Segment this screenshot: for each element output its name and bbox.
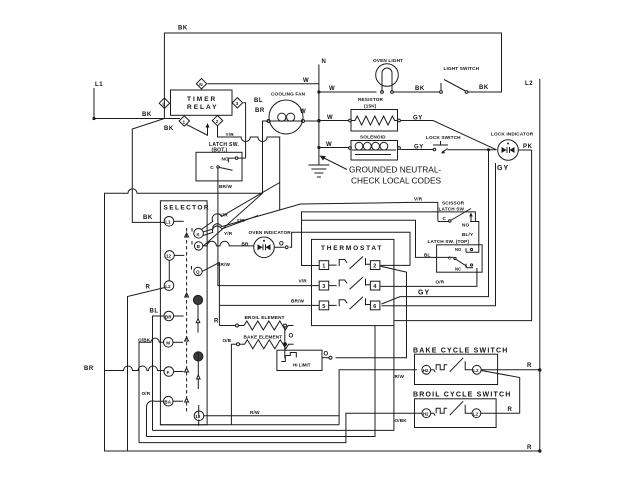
wire elements common to hi limit [284, 327, 286, 350]
svg-text:BR/W: BR/W [219, 184, 233, 189]
wire fan right to neutral [305, 120, 319, 122]
svg-text:F: F [167, 370, 170, 375]
wire bake switch to L2 [481, 369, 540, 371]
wire to thermostat 1 [302, 220, 320, 265]
svg-text:R: R [527, 445, 532, 451]
svg-text:R: R [214, 319, 219, 325]
thermostat contact row 2 [329, 277, 371, 289]
thermostat terminal 6 [370, 301, 380, 310]
svg-text:L: L [162, 101, 165, 106]
svg-text:V/R: V/R [220, 213, 229, 218]
wire neutral to resistor [319, 120, 349, 122]
svg-text:BK: BK [178, 26, 188, 32]
svg-text:LATCH SW. (TOP): LATCH SW. (TOP) [428, 239, 470, 244]
thermostat contact row 3 [329, 297, 371, 309]
wire BK top loop [164, 33, 501, 119]
svg-text:BR: BR [165, 314, 172, 319]
thermostat terminal 3 [319, 281, 329, 290]
svg-text:LOCK INDICATOR: LOCK INDICATOR [491, 132, 534, 137]
wire 12 to L2 [168, 260, 170, 281]
hi limit switch S5 [277, 350, 332, 370]
wire R bottom bus [105, 371, 540, 452]
svg-text:W: W [329, 86, 335, 92]
selector terminal F [164, 367, 184, 377]
wire lock switch to lock indicator [448, 149, 497, 151]
wire diamond 2 to latch bottom NO [218, 126, 280, 210]
selector switch SW2 [160, 201, 210, 425]
svg-text:1: 1 [322, 264, 325, 270]
svg-text:BR: BR [84, 366, 94, 372]
svg-text:BL: BL [424, 253, 431, 258]
svg-text:Y/R: Y/R [226, 132, 235, 137]
wire GY vertical from lock switch to thermostat 6 [382, 150, 489, 304]
thermostat terminal 1 [319, 261, 329, 270]
svg-text:CHECK LOCAL CODES: CHECK LOCAL CODES [351, 176, 442, 186]
svg-text:L1: L1 [95, 82, 103, 88]
svg-text:H2: H2 [423, 368, 429, 373]
svg-text:1: 1 [183, 119, 186, 124]
svg-text:SOLENOID: SOLENOID [360, 135, 386, 140]
wire BR bus horizontal with hop [105, 189, 263, 371]
svg-text:GY: GY [418, 290, 430, 297]
svg-text:V/R: V/R [299, 279, 308, 284]
svg-text:(15K): (15K) [364, 104, 377, 109]
svg-text:BK: BK [164, 126, 174, 132]
wire neutral to solenoid [319, 147, 349, 149]
bake cycle switch S6 [413, 348, 508, 385]
svg-text:GY: GY [414, 145, 424, 151]
svg-text:OVEN INDICATOR: OVEN INDICATOR [249, 230, 292, 235]
svg-text:LATCH SW: LATCH SW [439, 207, 465, 212]
wire V/R X to scissor latch C via diagonal [203, 202, 437, 231]
wire bake out diagonal to broil riser [481, 371, 520, 414]
bake element R3 [237, 334, 294, 349]
svg-text:R: R [527, 363, 532, 369]
svg-text:BR: BR [255, 108, 265, 114]
svg-text:BR: BR [242, 241, 250, 246]
wire L1 to timer diamond 1 [94, 118, 180, 120]
svg-text:O: O [289, 334, 294, 340]
svg-text:W: W [303, 78, 309, 84]
svg-text:OVEN LIGHT: OVEN LIGHT [373, 58, 403, 63]
wire BL from BR terminal to bus [153, 316, 165, 430]
svg-text:BROIL ELEMENT: BROIL ELEMENT [245, 315, 285, 320]
svg-text:THERMOSTAT: THERMOSTAT [321, 245, 383, 252]
svg-text:BK: BK [415, 86, 425, 92]
wire V/R X up diagonal to lock area [202, 183, 280, 230]
latch switch (bottom) SW1 [196, 142, 246, 181]
selector gang link [197, 305, 200, 426]
selector terminal L2 [164, 281, 174, 291]
svg-text:NC: NC [455, 267, 461, 272]
svg-text:O/BK: O/BK [138, 338, 151, 343]
wire solenoid to lock switch [401, 149, 434, 151]
wire R from L2 to left bus [128, 288, 165, 452]
wire fan BR diagonal to selector B [204, 193, 263, 246]
wire O/BK bus to broil H2 [139, 413, 422, 442]
svg-text:N: N [322, 59, 327, 65]
oven indicator DS1 [249, 230, 292, 258]
selector contact dot lower [194, 352, 203, 361]
wire BR/W from Q [202, 262, 319, 325]
svg-text:Y/R: Y/R [224, 231, 233, 236]
selector terminal BA [164, 396, 184, 406]
selector terminal Q [192, 266, 203, 276]
svg-text:O/R: O/R [142, 391, 151, 396]
svg-text:R/W: R/W [250, 410, 260, 415]
wire O/R bus riser [147, 326, 376, 437]
wire scissor NO line [302, 212, 476, 222]
svg-text:L2: L2 [525, 81, 533, 87]
wire Y/R short from X [203, 216, 258, 236]
svg-text:L1: L1 [165, 220, 171, 225]
svg-text:BAKE ELEMENT: BAKE ELEMENT [244, 334, 283, 339]
svg-text:R: R [146, 285, 151, 291]
wire BL into latch top C [302, 220, 454, 257]
solenoid L1coil [349, 135, 401, 161]
svg-text:RELAY: RELAY [187, 104, 218, 111]
svg-text:BK: BK [142, 112, 152, 118]
wire R/W from selector 18 to bake cycle switch [204, 370, 417, 425]
wire broil out to riser [481, 412, 520, 414]
svg-text:6: 6 [373, 304, 376, 310]
svg-text:W: W [326, 142, 332, 148]
wire oven light to light switch [394, 91, 440, 93]
wire fan left lead down [263, 121, 269, 193]
svg-text:O/BK: O/BK [395, 418, 408, 423]
wire PK vertical [394, 150, 531, 321]
broil cycle switch S7 [413, 392, 511, 428]
wire BL from diamond 3 [243, 103, 245, 158]
svg-text:HI LIMIT: HI LIMIT [293, 363, 311, 368]
svg-text:GROUNDED NEUTRAL-: GROUNDED NEUTRAL- [349, 165, 441, 175]
svg-text:BR/W: BR/W [291, 299, 305, 304]
svg-text:12: 12 [166, 254, 172, 259]
scissor latch switch S3 [438, 201, 479, 228]
svg-text:C: C [210, 165, 214, 170]
timer relay U1 [171, 90, 233, 115]
svg-text:18: 18 [195, 414, 201, 419]
svg-text:Q: Q [196, 270, 200, 275]
svg-text:BA: BA [164, 400, 171, 405]
selector terminal 12 [165, 251, 185, 261]
lock switch S2 [426, 135, 461, 154]
timer contact blade and arrow [187, 125, 209, 136]
svg-text:O/B: O/B [223, 338, 232, 343]
selector terminal L1 [164, 217, 184, 227]
broil element R2 [236, 315, 294, 330]
terminal diamond 3 [232, 98, 242, 108]
selector linkage dashed [186, 228, 188, 412]
svg-text:N: N [199, 82, 203, 87]
svg-text:5: 5 [322, 304, 325, 310]
svg-text:R/W: R/W [395, 374, 405, 379]
ground [308, 165, 329, 177]
svg-text:W: W [300, 109, 306, 115]
terminal diamond 1 [179, 116, 189, 126]
svg-text:3: 3 [322, 284, 325, 290]
svg-text:BR/W: BR/W [217, 262, 231, 267]
selector terminal M [164, 338, 184, 348]
wire O from oven indicator to thermostat 2 [275, 232, 411, 265]
wire O/BK from M terminal to bus [139, 338, 164, 442]
wire O/R latch top NC to thermostat 4 [381, 268, 477, 286]
wire PK from lock indicator [519, 149, 532, 151]
svg-text:L2: L2 [473, 368, 479, 373]
svg-text:L2: L2 [473, 411, 479, 416]
wire B to oven indicator [203, 241, 254, 246]
label GROUNDED NEUTRAL CHECK LOCAL CODES [320, 156, 442, 186]
selector terminal BR [164, 311, 184, 321]
svg-text:NO: NO [455, 247, 462, 252]
svg-text:V/R: V/R [414, 197, 423, 202]
svg-text:3: 3 [236, 101, 239, 106]
wire BL bus to thermostat box bottom [153, 326, 394, 431]
thermostat terminal 2 [370, 261, 380, 270]
thermostat box [312, 239, 394, 325]
wire thermostat 2 to elements common [336, 266, 407, 358]
svg-text:NO: NO [462, 223, 470, 228]
svg-text:BAKE CYCLE SWITCH: BAKE CYCLE SWITCH [413, 348, 508, 355]
svg-text:BK: BK [479, 85, 489, 91]
thermostat terminal 4 [370, 281, 380, 290]
svg-text:O/R: O/R [436, 280, 445, 285]
svg-text:GY: GY [413, 116, 423, 122]
svg-text:LOCK SWITCH: LOCK SWITCH [426, 135, 461, 140]
selector terminal X [192, 228, 203, 238]
svg-text:O: O [324, 352, 329, 358]
svg-text:PK: PK [523, 144, 533, 150]
svg-text:W: W [327, 115, 333, 121]
svg-text:SCISSOR: SCISSOR [442, 201, 465, 206]
svg-text:R: R [508, 407, 513, 413]
svg-text:H2: H2 [423, 411, 429, 416]
wire BR bus down-left to selector F [105, 366, 165, 371]
latch switch (top) S4 [428, 239, 483, 272]
lock indicator DS2 [491, 132, 534, 161]
wire diamond N to neutral bus [208, 83, 319, 85]
node L1 [92, 82, 103, 120]
wire resistor GY diagonal to lock indicator [401, 121, 497, 150]
resistor R1 [349, 97, 401, 131]
oven light E1 [373, 58, 403, 93]
terminal diamond L [159, 98, 169, 108]
wire O/B bake element left down [160, 344, 339, 425]
wire O/R from BA to bus [147, 401, 164, 437]
thermostat terminal 5 [319, 301, 329, 310]
svg-text:SELECTOR: SELECTOR [164, 205, 210, 212]
terminal diamond 2 [212, 115, 222, 125]
svg-text:TIMER: TIMER [187, 96, 217, 103]
selector terminal B [192, 241, 203, 250]
svg-text:LIGHT SWITCH: LIGHT SWITCH [444, 66, 480, 71]
svg-text:BL/Y: BL/Y [462, 232, 474, 237]
selector terminal 18 [194, 411, 204, 421]
cooling fan B1 [267, 92, 306, 135]
light switch S1 [440, 66, 480, 93]
svg-text:O: O [279, 242, 284, 248]
svg-text:BL: BL [150, 309, 159, 315]
svg-text:2: 2 [216, 119, 219, 124]
svg-text:GY: GY [497, 165, 509, 172]
thermostat contact row 1 [329, 257, 371, 269]
selector contact dot upper [193, 295, 202, 304]
svg-text:2: 2 [373, 264, 376, 270]
svg-text:BK: BK [143, 215, 153, 221]
svg-text:COOLING FAN: COOLING FAN [271, 92, 306, 97]
wire BK diagonal to left bus [132, 119, 164, 223]
svg-text:C: C [443, 216, 447, 221]
node L2 [525, 79, 542, 453]
svg-text:C: C [448, 256, 452, 261]
wire neutral to oven light [319, 91, 377, 93]
svg-text:BROIL CYCLE SWITCH: BROIL CYCLE SWITCH [413, 392, 511, 399]
svg-text:L2: L2 [165, 284, 171, 289]
svg-text:M: M [166, 341, 170, 346]
wire BR/W from latch bottom C down [218, 181, 319, 286]
svg-text:RESISTOR: RESISTOR [358, 97, 384, 102]
svg-text:BL: BL [254, 98, 263, 104]
node N neutral bus [317, 59, 326, 165]
wire broil element left R riser [219, 325, 235, 327]
terminal diamond N [196, 79, 206, 89]
wire thermostat 6 row to right vertical [382, 163, 496, 306]
wire BL/Y scissor NO to latch top NO [473, 226, 479, 253]
